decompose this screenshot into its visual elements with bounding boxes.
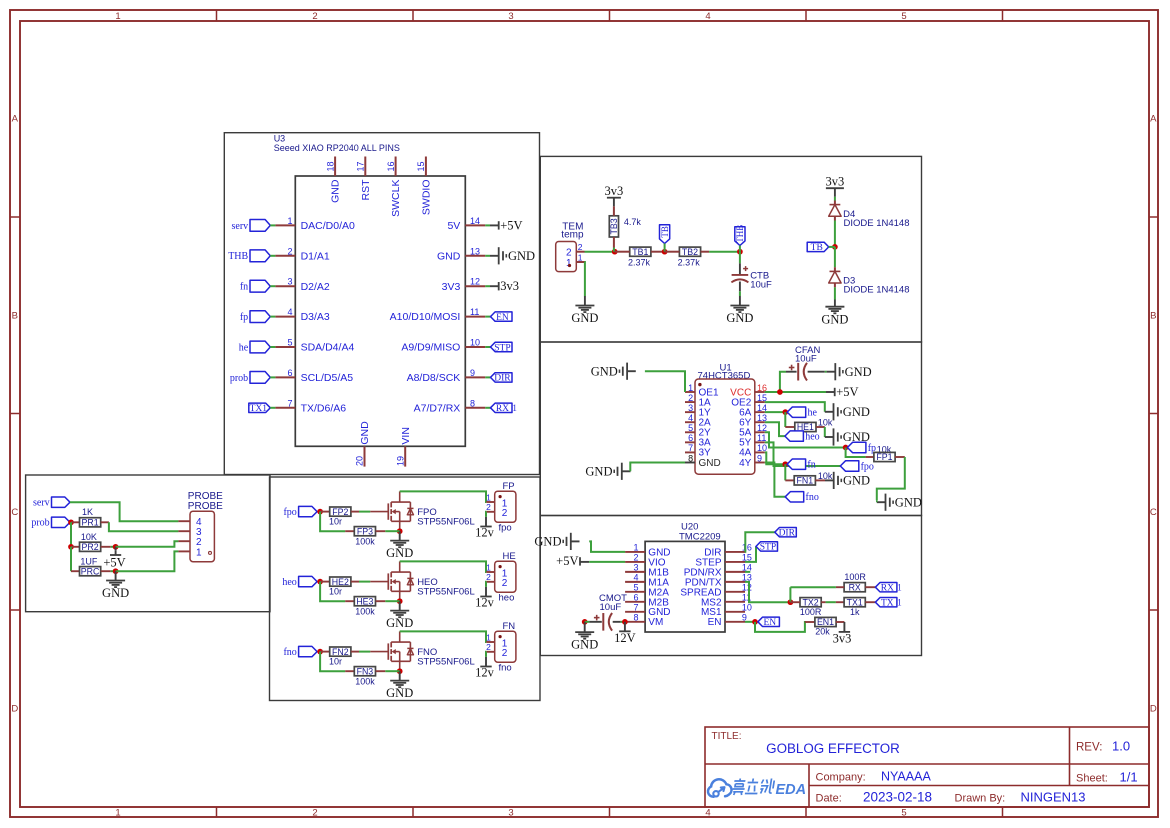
svg-text:10r: 10r [329,657,342,667]
svg-text:3: 3 [688,403,693,413]
svg-text:1: 1 [566,258,572,269]
svg-text:8: 8 [633,613,638,623]
svg-text:FN2: FN2 [332,647,349,657]
svg-text:2: 2 [578,242,583,252]
svg-text:GND: GND [386,616,413,630]
svg-text:prob: prob [230,373,248,384]
svg-text:D3/A3: D3/A3 [301,311,330,323]
svg-text:THB: THB [735,225,745,243]
svg-text:10: 10 [470,338,480,348]
svg-text:7: 7 [688,443,693,453]
svg-text:RX: RX [496,404,509,414]
svg-text:FP3: FP3 [357,526,373,536]
svg-text:GND: GND [386,546,413,560]
svg-text:SWDIO: SWDIO [421,180,433,216]
svg-text:A: A [1150,114,1157,125]
svg-text:GND: GND [726,311,753,325]
svg-text:DIODE 1N4148: DIODE 1N4148 [844,284,910,295]
svg-text:+5V: +5V [556,554,578,568]
svg-text:heo: heo [499,593,515,604]
svg-text:fn: fn [807,460,815,471]
svg-text:100k: 100k [355,676,375,686]
svg-text:FP2: FP2 [332,507,348,517]
svg-text:NINGEN13: NINGEN13 [1021,790,1086,805]
svg-text:FP1: FP1 [876,452,892,462]
svg-text:TITLE:: TITLE: [712,731,742,742]
svg-text:3v3: 3v3 [833,632,852,646]
svg-text:6: 6 [287,368,292,378]
svg-text:SDA/D4/A4: SDA/D4/A4 [301,342,355,354]
svg-text:C: C [11,507,18,518]
svg-text:B: B [12,311,18,322]
svg-text:4: 4 [633,573,638,583]
svg-text:prob: prob [31,518,49,529]
svg-text:3v3: 3v3 [826,174,845,188]
svg-text:2: 2 [312,11,317,22]
svg-text:3: 3 [508,11,513,22]
svg-text:RX: RX [849,582,861,592]
svg-text:Drawn By:: Drawn By: [955,793,1006,805]
svg-text:2: 2 [502,578,508,589]
svg-text:TB1: TB1 [632,247,648,257]
svg-text:GND: GND [585,465,612,479]
svg-text:6: 6 [688,433,693,443]
svg-text:GND: GND [330,179,342,203]
svg-text:GND: GND [102,586,129,600]
svg-text:VIN: VIN [400,427,412,445]
svg-text:12v: 12v [475,596,495,610]
svg-text:GND: GND [534,535,561,549]
svg-text:11: 11 [470,307,479,317]
svg-text:100k: 100k [355,606,375,616]
svg-text:DIR: DIR [494,374,511,384]
svg-text:STP55NF06L: STP55NF06L [417,517,475,528]
svg-text:RST: RST [360,179,372,201]
svg-text:NYAAAA: NYAAAA [881,770,931,784]
svg-text:RX: RX [881,584,894,594]
svg-text:C: C [1150,507,1157,518]
svg-text:PRC: PRC [81,566,100,576]
svg-text:3V3: 3V3 [442,281,461,293]
svg-text:1: 1 [115,808,120,819]
svg-text:GND: GND [386,686,413,700]
svg-text:2: 2 [486,572,491,582]
svg-text:7: 7 [633,603,638,613]
svg-text:10: 10 [742,602,752,612]
svg-text:2: 2 [287,246,292,256]
svg-text:fpo: fpo [283,507,296,518]
svg-text:PR1: PR1 [82,518,99,528]
svg-text:5V: 5V [447,220,460,232]
svg-text:1: 1 [486,562,491,572]
svg-text:10r: 10r [329,587,342,597]
svg-text:fpo: fpo [499,523,512,534]
svg-text:5: 5 [901,808,906,819]
svg-text:1: 1 [578,252,583,262]
svg-text:10uF: 10uF [750,280,772,291]
svg-text:STP: STP [760,543,776,553]
svg-text:3v3: 3v3 [500,279,519,293]
svg-text:2.37k: 2.37k [678,257,701,267]
svg-text:FP: FP [503,481,515,492]
svg-text:1k: 1k [850,607,860,617]
svg-text:14: 14 [470,216,480,226]
svg-text:EN: EN [708,617,722,628]
svg-text:Seeed XIAO RP2040 ALL PINS: Seeed XIAO RP2040 ALL PINS [274,143,400,153]
svg-text:HE3: HE3 [356,596,373,606]
svg-text:20k: 20k [815,627,830,637]
svg-text:SWCLK: SWCLK [390,180,402,217]
svg-text:GND: GND [508,249,535,263]
svg-text:fno: fno [283,647,296,658]
svg-text:3v3: 3v3 [605,184,624,198]
svg-text:12: 12 [470,277,480,287]
svg-text:EDA: EDA [776,782,807,798]
svg-text:100R: 100R [844,572,866,582]
svg-text:1: 1 [115,11,120,22]
svg-text:12v: 12v [475,526,495,540]
svg-text:EN: EN [764,618,777,628]
svg-text:4.7k: 4.7k [624,217,642,227]
svg-text:+5V: +5V [836,385,858,399]
svg-text:A8/D8/SCK: A8/D8/SCK [407,372,461,384]
svg-text:serv: serv [33,498,50,509]
svg-text:serv: serv [232,221,249,232]
svg-text:Sheet:: Sheet: [1076,773,1108,785]
svg-text:16: 16 [386,161,396,171]
svg-text:1: 1 [897,597,902,607]
svg-text:8: 8 [470,398,475,408]
svg-text:100R: 100R [800,607,822,617]
svg-text:+5V: +5V [500,218,522,232]
svg-text:12V: 12V [614,631,636,645]
svg-text:5: 5 [633,583,638,593]
svg-text:1: 1 [486,632,491,642]
svg-text:GOBLOG EFFECTOR: GOBLOG EFFECTOR [766,741,900,756]
svg-text:100k: 100k [355,536,375,546]
svg-text:10k: 10k [818,471,833,481]
svg-text:REV:: REV: [1076,742,1102,754]
svg-text:4: 4 [287,307,292,317]
svg-text:18: 18 [325,161,335,171]
svg-text:4: 4 [705,11,710,22]
svg-text:FN1: FN1 [796,476,813,486]
svg-text:GND: GND [699,458,721,469]
svg-text:17: 17 [356,161,366,171]
svg-text:VM: VM [648,617,663,628]
svg-text:DIODE 1N4148: DIODE 1N4148 [844,218,910,229]
svg-text:FN3: FN3 [357,666,374,676]
svg-text:D: D [1150,704,1157,715]
svg-text:TX1: TX1 [250,404,268,414]
svg-text:HE: HE [503,551,516,562]
svg-text:DAC/D0/A0: DAC/D0/A0 [301,220,355,232]
svg-text:D1/A1: D1/A1 [301,250,330,262]
svg-text:TX1: TX1 [847,597,863,607]
svg-text:2: 2 [633,553,638,563]
svg-text:fpo: fpo [861,461,874,472]
svg-text:heo: heo [805,432,819,443]
svg-text:1: 1 [688,383,693,393]
svg-text:5: 5 [688,423,693,433]
svg-text:A: A [12,114,19,125]
svg-text:SCL/D5/A5: SCL/D5/A5 [301,372,354,384]
svg-text:GND: GND [843,405,870,419]
svg-text:1: 1 [897,582,902,592]
svg-text:GND: GND [571,638,598,652]
svg-text:1/1: 1/1 [1120,770,1138,785]
svg-text:5: 5 [901,11,906,22]
svg-text:1: 1 [512,403,517,413]
svg-text:fno: fno [499,663,512,674]
svg-text:heo: heo [282,577,296,588]
svg-text:GND: GND [359,421,371,445]
svg-text:TX/D6/A6: TX/D6/A6 [301,402,347,414]
svg-text:1.0: 1.0 [1112,739,1130,754]
svg-text:Date:: Date: [816,793,842,805]
svg-text:Company:: Company: [816,772,866,784]
svg-text:U3: U3 [274,134,286,144]
svg-text:TX2: TX2 [803,597,819,607]
svg-text:A7/D7/RX: A7/D7/RX [414,402,461,414]
svg-text:4: 4 [688,413,693,423]
svg-text:16: 16 [742,542,752,552]
svg-text:9: 9 [470,368,475,378]
svg-text:THB: THB [228,251,248,262]
svg-text:GND: GND [437,250,461,262]
svg-text:1: 1 [196,547,202,558]
svg-text:FN: FN [503,621,516,632]
svg-text:5: 5 [287,338,292,348]
svg-text:1K: 1K [82,507,93,517]
svg-text:2: 2 [688,393,693,403]
svg-text:19: 19 [395,456,405,466]
svg-text:15: 15 [416,161,426,171]
svg-text:GND: GND [821,312,848,326]
svg-text:fno: fno [806,492,819,503]
svg-text:6: 6 [633,593,638,603]
svg-text:STP55NF06L: STP55NF06L [417,657,475,668]
svg-text:7: 7 [287,398,292,408]
svg-text:4Y: 4Y [739,458,752,469]
svg-text:D: D [11,704,18,715]
svg-text:GND: GND [571,311,598,325]
svg-text:STP: STP [494,343,510,353]
svg-text:10r: 10r [329,517,342,527]
svg-text:B: B [1150,311,1156,322]
svg-text:HE2: HE2 [332,577,349,587]
svg-text:2.37k: 2.37k [628,257,651,267]
svg-text:TX: TX [881,599,894,609]
svg-text:PROBE: PROBE [188,501,223,512]
svg-text:3: 3 [287,277,292,287]
svg-text:20: 20 [355,456,365,466]
svg-text:10uF: 10uF [600,602,622,613]
svg-text:TB: TB [660,226,670,238]
svg-text:DIR: DIR [779,529,796,539]
svg-text:D2/A2: D2/A2 [301,281,330,293]
svg-text:12v: 12v [475,666,495,680]
svg-text:he: he [239,342,249,353]
svg-text:+5V: +5V [103,556,125,570]
svg-text:4: 4 [705,808,710,819]
svg-text:2: 2 [486,502,491,512]
svg-text:1: 1 [486,492,491,502]
svg-text:2: 2 [486,642,491,652]
svg-text:3: 3 [508,808,513,819]
svg-text:10K: 10K [81,532,97,542]
svg-text:A9/D9/MISO: A9/D9/MISO [401,342,460,354]
svg-text:3: 3 [633,563,638,573]
svg-text:he: he [808,408,818,419]
svg-text:GND: GND [591,364,618,378]
svg-text:2023-02-18: 2023-02-18 [863,790,932,805]
svg-text:1: 1 [287,216,292,226]
svg-text:13: 13 [470,246,480,256]
svg-text:GND: GND [845,365,872,379]
svg-text:1: 1 [633,543,638,553]
svg-text:2: 2 [312,808,317,819]
svg-text:GND: GND [843,474,870,488]
svg-text:STP55NF06L: STP55NF06L [417,587,475,598]
svg-text:EN: EN [496,313,509,323]
svg-text:9: 9 [757,453,762,463]
svg-text:1UF: 1UF [80,556,98,566]
svg-text:GND: GND [895,495,922,509]
svg-text:temp: temp [561,230,584,241]
svg-text:10k: 10k [818,417,833,427]
svg-text:2: 2 [502,648,508,659]
svg-text:TB3: TB3 [609,218,619,234]
svg-text:PR2: PR2 [82,542,99,552]
svg-text:2: 2 [502,508,508,519]
svg-text:12: 12 [742,582,752,592]
svg-text:TB: TB [811,243,823,253]
svg-text:TB2: TB2 [682,247,698,257]
svg-text:8: 8 [688,453,693,463]
svg-text:A10/D10/MOSI: A10/D10/MOSI [390,311,461,323]
svg-text:fn: fn [240,282,248,293]
svg-text:fp: fp [240,312,248,323]
